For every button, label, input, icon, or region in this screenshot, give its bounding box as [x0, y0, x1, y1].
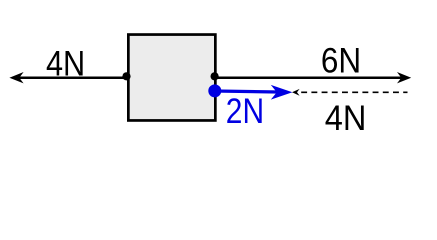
svg-text:4N: 4N [46, 43, 85, 83]
block (box) [128, 35, 215, 121]
wire: 2N blue force line [215, 91, 278, 92]
arrowhead: 2N blue [271, 85, 293, 100]
arrowhead: 4N dashed left [292, 89, 300, 96]
svg-text:6N: 6N [321, 40, 361, 80]
arrowhead: 6N right [397, 72, 411, 83]
svg-text:4N: 4N [325, 98, 367, 138]
svg-text:2N: 2N [226, 91, 264, 131]
node: left attachment dot [122, 72, 130, 80]
node: blue attachment dot [208, 84, 221, 97]
node: right attachment dot [211, 72, 219, 80]
arrowhead: 4N left [9, 72, 23, 83]
wire: 4N left force line [13, 76, 128, 79]
wire: 6N right force line [215, 76, 407, 79]
wire: 4N dashed line [301, 91, 407, 93]
